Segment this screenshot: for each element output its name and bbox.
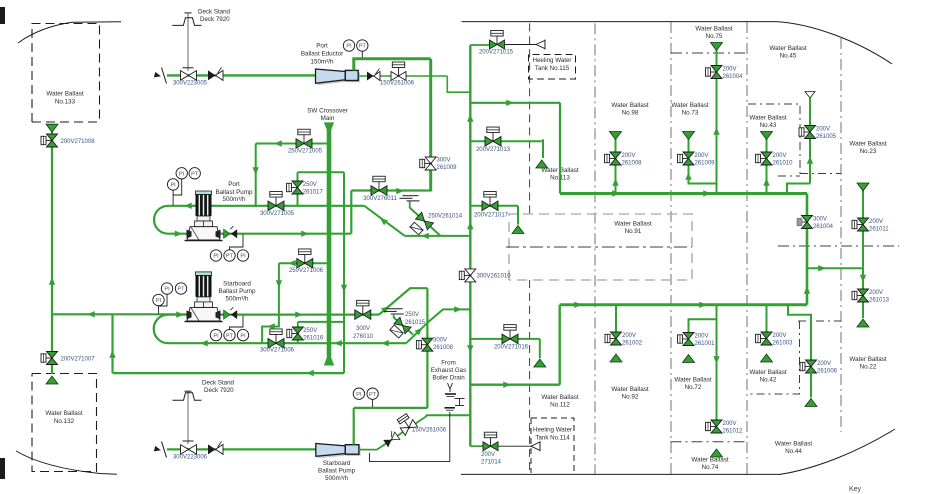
pump room boundary x529.5 [529, 23, 531, 216]
svg-text:200V: 200V [723, 67, 737, 73]
wire stbd eductor discharge [359, 449, 377, 451]
valve 250V271006 on SW main branch [279, 262, 331, 264]
boiler drain funnel symbol [448, 383, 453, 389]
tank 43 suction triangle [761, 132, 773, 140]
svg-text:Water Ballast: Water Ballast [614, 221, 651, 228]
wire crossover diagonal stbd discharge up [379, 288, 427, 314]
tank No.75 lower boundary [671, 52, 747, 54]
wire bypass jog to suction [262, 315, 279, 344]
svg-text:250V: 250V [405, 312, 419, 318]
wire overboard stub [409, 202, 411, 209]
wire 261016 header y321.9 [298, 321, 344, 323]
svg-text:Water Ballast: Water Ballast [671, 102, 708, 109]
valve 200V271014 [490, 438, 492, 447]
svg-text:261009: 261009 [437, 165, 458, 171]
valve 200V261001 [683, 338, 689, 340]
wire 250V261017 stub header y172.3 [298, 171, 345, 173]
svg-text:250V: 250V [303, 328, 317, 334]
tank Water Ballast No.133 box [32, 24, 100, 123]
tank 72 triangle [683, 355, 695, 363]
black check valve top line [208, 70, 216, 80]
svg-text:PI: PI [346, 44, 352, 50]
svg-text:Tank No.114: Tank No.114 [535, 435, 570, 442]
wire 300V276011 header y190.5 [351, 189, 430, 191]
black drain loop bracket [370, 412, 450, 462]
svg-text:PI: PI [156, 298, 162, 304]
svg-text:261010: 261010 [773, 161, 794, 167]
wire 200V271017 branch y205.8 [470, 205, 518, 207]
wire diagonal suction link to riser427 [407, 323, 428, 343]
black line to heeling 114 funnel [498, 445, 533, 447]
svg-text:200V271015: 200V271015 [479, 50, 514, 56]
funnel heeling 114 [531, 442, 540, 450]
tank 73 suction triangle [683, 132, 695, 140]
tank 72 jog y319.2 [689, 319, 717, 333]
valve 250V261015 diagonal [394, 317, 411, 334]
svg-text:200V: 200V [695, 153, 709, 159]
svg-text:Water Ballast: Water Ballast [541, 394, 578, 401]
svg-text:200V: 200V [622, 153, 636, 159]
valve 200V261003 [761, 338, 767, 340]
svg-text:No.72: No.72 [685, 384, 702, 391]
valve 300V261008 [421, 344, 427, 346]
wire main2 y304.8 [560, 303, 807, 306]
gauge stems port pump [173, 180, 182, 196]
svg-text:250V: 250V [303, 182, 317, 188]
svg-text:261006: 261006 [817, 369, 838, 375]
wire y183.5 link to main1 [787, 184, 810, 194]
wire elbow x539.8 tank112 [539, 339, 541, 358]
valve 200V271017 [489, 197, 491, 206]
svg-text:Ballast Pump: Ballast Pump [318, 468, 356, 475]
wire eductor overflow diagonal [377, 415, 426, 449]
wire stub 261016 [297, 322, 299, 343]
svg-text:261005: 261005 [816, 134, 837, 140]
wire drop x255.7 to port suction [255, 144, 257, 207]
gauge PT port eductor [357, 40, 368, 51]
svg-text:Ballast Pump: Ballast Pump [215, 189, 253, 196]
valve 200V271007 [46, 357, 52, 359]
wire link y268.3 [807, 267, 863, 269]
wire 200V271013 branch y141.3 [470, 140, 542, 142]
svg-text:PT: PT [226, 254, 234, 260]
wire diagonal port suction to y235.9 [364, 206, 405, 236]
valve 200V261011 [857, 224, 863, 226]
valve 300V271006 [275, 334, 277, 343]
tank 45 branch white triangle [805, 92, 815, 99]
black check valve after eductor [367, 72, 374, 81]
svg-text:Water Ballast: Water Ballast [695, 26, 732, 33]
tank Water Ballast No.132 box [32, 374, 97, 472]
sea suction slash top [162, 68, 167, 84]
gauge stem stbd eductor [372, 400, 374, 407]
valve 200V261005 [804, 131, 810, 133]
valve 150V261006 port [398, 68, 400, 77]
valve 150V261006 stbd diagonal [396, 413, 418, 436]
wire main riser x470.3 [469, 45, 471, 446]
svg-text:PI: PI [240, 254, 246, 260]
svg-text:No.91: No.91 [625, 228, 642, 235]
funnel heeling 115 [536, 40, 545, 48]
gauge PI2 port discharge [237, 250, 248, 261]
svg-text:Water Ballast: Water Ballast [769, 45, 806, 52]
wire 271014 elbow [470, 445, 483, 447]
tank No.43 box [748, 104, 800, 176]
svg-text:PT: PT [226, 333, 234, 339]
svg-text:300V: 300V [813, 217, 827, 223]
svg-text:200V271007: 200V271007 [61, 357, 96, 363]
svg-text:PT: PT [191, 172, 199, 178]
wire vertical x112.5 link [111, 314, 113, 373]
valve 250V261016 [292, 333, 298, 335]
gauge bracket stbd discharge [230, 316, 244, 330]
tank 42b/44 jog branch [788, 305, 811, 361]
centerline inside No.91 [506, 246, 692, 248]
check valve stbd discharge [224, 310, 230, 319]
hull top-left corner curve [18, 22, 121, 43]
gauge PI port eductor [343, 40, 354, 51]
svg-text:250V261014: 250V261014 [428, 214, 463, 220]
svg-text:261004: 261004 [723, 74, 744, 80]
tank 75 suction triangle [711, 43, 723, 51]
valve 200V261010 tank43 [761, 158, 767, 160]
svg-text:300V223005: 300V223005 [173, 81, 208, 87]
wire 300V276011 riser x351.3 [350, 191, 352, 234]
valve 200V261006 [805, 366, 811, 368]
wire stbd eductor suction riser [353, 408, 355, 445]
svg-text:261011: 261011 [869, 227, 889, 233]
svg-text:200V: 200V [869, 219, 883, 225]
svg-text:Water Ballast: Water Ballast [749, 369, 786, 376]
svg-text:Water Ballast: Water Ballast [674, 377, 711, 384]
svg-text:200V: 200V [816, 127, 830, 133]
svg-text:No.73: No.73 [682, 110, 699, 117]
valve 200V261013 [857, 295, 863, 297]
overboard symbol stbd [387, 308, 403, 310]
valve 200V271008 [46, 140, 52, 142]
svg-text:250V271005: 250V271005 [288, 149, 323, 155]
svg-text:Ballast Eductor: Ballast Eductor [301, 51, 343, 58]
tank 132 suction triangle [46, 376, 58, 384]
valve 300V261004 [802, 221, 807, 223]
tank No.42 box [798, 320, 841, 322]
wire diagonal 250V261015 [394, 318, 413, 335]
wire stbd suction header y314.3 [52, 313, 188, 315]
tank 23 triangle [857, 183, 869, 191]
gauge PT stbd discharge [224, 329, 235, 340]
wire 200V271016 branch y338.9 [470, 338, 540, 340]
svg-text:PI: PI [164, 287, 170, 293]
wire vertical x344 SW main to bottom header [343, 172, 345, 373]
svg-text:300V271006: 300V271006 [260, 348, 295, 354]
svg-text:No.42: No.42 [760, 377, 777, 384]
wire bottom header y373.1 [113, 372, 345, 374]
svg-text:300V261010: 300V261010 [477, 274, 512, 280]
svg-text:Water Ballast: Water Ballast [611, 386, 648, 393]
gauge PI2 stbd discharge [237, 329, 248, 340]
svg-text:261016: 261016 [303, 336, 324, 342]
wire main1 y193.5 [560, 192, 807, 195]
svg-text:250V271006: 250V271006 [289, 268, 324, 274]
wire stub x297.5 [297, 172, 299, 206]
svg-text:PI: PI [213, 254, 219, 260]
svg-text:150V261006: 150V261006 [380, 81, 415, 87]
valve 300V271005 port suction [275, 197, 277, 206]
orifice symbol 261015 [390, 325, 403, 338]
svg-text:500m³/h: 500m³/h [325, 475, 349, 482]
tank No.74 boundary [671, 441, 747, 443]
svg-text:PI: PI [356, 392, 362, 398]
svg-text:Tank No.115: Tank No.115 [535, 65, 570, 72]
svg-text:261003: 261003 [773, 341, 794, 347]
wire line A y102.8 [470, 102, 560, 104]
tank 75 branch [716, 50, 718, 194]
tank 112 suction triangle [534, 359, 546, 367]
svg-text:No.98: No.98 [622, 110, 639, 117]
black check valve bottom line [208, 444, 216, 454]
svg-text:150m³/h: 150m³/h [310, 59, 334, 66]
wire overboard stub stbd [393, 314, 395, 318]
svg-text:300V: 300V [433, 338, 447, 344]
wire main2 feed riser x559.7 [559, 305, 561, 385]
svg-text:200V271013: 200V271013 [476, 147, 511, 153]
svg-text:Water Ballast: Water Ballast [749, 115, 786, 122]
black check on overflow diagonal [382, 430, 400, 447]
fold mark top-left [0, 7, 5, 24]
svg-text:No.112: No.112 [550, 402, 570, 409]
valve 250V261014 diagonal [415, 212, 433, 230]
svg-text:Water Ballast: Water Ballast [775, 441, 812, 448]
tank Water Ballast No.91 box [509, 214, 692, 280]
svg-text:No.132: No.132 [54, 418, 75, 425]
black line to heeling 115 funnel [505, 44, 537, 46]
overboard symbol port [403, 195, 419, 197]
valve 250V271005 [303, 135, 305, 144]
tank 133 suction triangle [46, 124, 58, 132]
svg-text:300V223006: 300V223006 [173, 455, 208, 461]
svg-text:Boiler Drain: Boiler Drain [432, 375, 465, 382]
wire diagonal 250V261014 [410, 208, 441, 236]
tank 73 branch [689, 139, 717, 184]
svg-text:PT: PT [177, 287, 185, 293]
wire tank45 branch x810 [809, 98, 811, 184]
svg-text:PI: PI [240, 333, 246, 339]
wire line A drop x560 [559, 103, 561, 194]
svg-text:No.43: No.43 [760, 122, 777, 129]
starboard ballast pump P2 body [185, 272, 223, 322]
gauge PI stbd discharge [210, 329, 221, 340]
tank 98 suction triangle [610, 132, 622, 140]
wire header y407.9 [354, 407, 428, 409]
svg-text:261008: 261008 [433, 345, 454, 351]
tank 91 suction triangle [512, 226, 524, 234]
gauge PT stbd pump [175, 283, 186, 294]
svg-text:Exhaust Gas: Exhaust Gas [431, 367, 466, 374]
sea suction slash bottom [162, 442, 167, 458]
valve 200V261012 [711, 426, 717, 428]
valve 300V276010 [362, 306, 364, 315]
wire riser x807 [806, 194, 809, 305]
svg-text:150V261006: 150V261006 [412, 428, 447, 434]
svg-text:PT: PT [369, 392, 377, 398]
svg-text:Heeling Water: Heeling Water [533, 427, 572, 434]
svg-text:261017: 261017 [303, 190, 324, 196]
svg-text:No.74: No.74 [702, 464, 719, 471]
wire elbow x447.3 y92.2 [447, 76, 470, 92]
wire 250V271005 branch y143.5 [256, 143, 331, 145]
wire header y235.9 [405, 235, 471, 237]
svg-text:200V271016: 200V271016 [494, 345, 529, 351]
svg-text:Starboard: Starboard [323, 460, 351, 467]
starboard eductor body [318, 446, 348, 459]
wire riser x427.4 [426, 288, 428, 408]
tank 98 branch [615, 139, 617, 194]
wire riser x52 from tank133 to tank132 [51, 132, 53, 353]
valve 300V223005 [181, 71, 189, 81]
tank 44 triangle [805, 399, 817, 407]
svg-text:Water Ballast: Water Ballast [849, 141, 886, 148]
svg-text:261001: 261001 [695, 341, 716, 347]
svg-text:200V271017: 200V271017 [474, 213, 509, 219]
valve 250V261017 [292, 187, 298, 189]
port ballast eductor body [318, 71, 348, 85]
svg-text:Deck Stand: Deck Stand [202, 380, 235, 387]
tank boundary bulkhead x841 [840, 38, 842, 432]
check valve port discharge [224, 229, 230, 238]
port pump discharge y233.7 [218, 233, 351, 235]
gauge stems stbd pump [159, 295, 168, 307]
wire elbow x518 tank91 [517, 206, 519, 225]
gauge bracket port discharge [230, 235, 244, 250]
svg-text:300V: 300V [356, 326, 370, 332]
valve 200V261009 [683, 158, 689, 160]
valve 200V261008 [610, 158, 616, 160]
svg-text:Port: Port [316, 43, 328, 50]
hull bottom-left corner curve [16, 451, 117, 474]
boiler drain seal symbol [445, 393, 456, 395]
deck line bottom [461, 473, 781, 475]
svg-text:Starboard: Starboard [223, 281, 251, 288]
SW crossover main pipe [324, 122, 334, 129]
svg-text:Water Ballast: Water Ballast [611, 102, 648, 109]
wire overflow line y415.2 to riser470 [426, 414, 470, 416]
node arrow up riser52 [49, 277, 55, 285]
svg-text:Water Ballast: Water Ballast [849, 356, 886, 363]
tank boundary bulkhead x671 [670, 22, 672, 474]
svg-text:500m³/h: 500m³/h [225, 296, 249, 303]
svg-text:200V: 200V [695, 334, 709, 340]
valve 200V271013 [492, 133, 494, 142]
wire riser x430.7 [429, 59, 432, 192]
orifice symbol 261014 [409, 222, 423, 236]
valve 300V223006 [181, 445, 189, 455]
fold mark bottom-left [0, 458, 5, 479]
tank boundary bulkhead x595 [594, 23, 596, 474]
Heeling Water Tank No.115 box [529, 55, 576, 80]
svg-text:300V276011: 300V276011 [363, 196, 397, 202]
svg-text:261002: 261002 [622, 341, 643, 347]
valve 200V271015 [496, 36, 498, 45]
svg-text:200V: 200V [773, 333, 787, 339]
wire stbd suction bottom y343.2 [168, 342, 407, 344]
svg-text:No.75: No.75 [706, 33, 723, 40]
svg-text:No.22: No.22 [860, 364, 877, 371]
gauge PI low stbd pump [153, 294, 164, 305]
valve 200V261002 [610, 338, 616, 340]
wire main2 feed y384.7 [470, 384, 559, 386]
svg-text:200V: 200V [773, 153, 787, 159]
svg-text:No.44: No.44 [785, 448, 802, 455]
wire stbd U-loop and inlet y314.6 [154, 315, 188, 344]
svg-text:200V: 200V [817, 361, 831, 367]
svg-text:PI: PI [179, 172, 185, 178]
valve 300V261009 [425, 163, 431, 165]
valve 200V271016 [509, 330, 511, 339]
wire 200V271015 branch y45.2 [470, 44, 490, 46]
gauge stem port eductor [361, 52, 363, 58]
tank 92 triangle [610, 354, 622, 362]
valve 200V261004 [711, 71, 717, 73]
svg-text:261009: 261009 [695, 161, 716, 167]
svg-text:PT: PT [359, 44, 367, 50]
svg-text:200V271008: 200V271008 [61, 139, 96, 145]
hull top-right corner curve [462, 21, 776, 23]
gauge PT port pump [189, 168, 200, 179]
tank 22 triangle [857, 319, 869, 327]
svg-text:261012: 261012 [723, 429, 744, 435]
svg-text:Deck 7920: Deck 7920 [200, 16, 230, 23]
svg-text:500m³/h: 500m³/h [222, 196, 246, 203]
wire port eductor drive line y75.4 [167, 74, 316, 76]
gauge PT port discharge [224, 250, 235, 261]
wire drop x278.9 to stbd discharge [278, 263, 280, 314]
svg-text:Key: Key [849, 486, 862, 493]
svg-text:271014: 271014 [481, 460, 502, 466]
gauge PI stbd pump [161, 283, 172, 294]
gauge PT stbd eductor [367, 388, 378, 399]
svg-text:Heeling Water: Heeling Water [533, 57, 572, 64]
tank 113 suction triangle [536, 160, 548, 168]
svg-text:Port: Port [228, 181, 240, 188]
svg-text:200V: 200V [869, 290, 883, 296]
svg-text:Deck 7920: Deck 7920 [204, 387, 234, 394]
wire stbd link y309.4 [427, 309, 470, 322]
tank 42 branch x766.5 [766, 305, 768, 333]
wire tank23/22 line x863 [862, 191, 864, 319]
tank 42 triangle [761, 354, 773, 362]
wire below 261006 [810, 373, 812, 398]
wire eductor discharge riser thick [352, 59, 355, 71]
wire after eductor thin y76 [358, 75, 447, 77]
valve 300V261010 [464, 274, 470, 276]
deck stand bottom symbol [185, 390, 192, 392]
wire port suction top y205.8 with U-loop [154, 206, 364, 234]
svg-text:Ballast Pump: Ballast Pump [218, 288, 256, 295]
tank 74 triangle [711, 449, 723, 457]
gauge PI low port pump [167, 179, 178, 190]
Heeling Water Tank No.114 box [531, 418, 574, 473]
svg-text:200V: 200V [481, 452, 495, 458]
svg-text:SW Crossover: SW Crossover [307, 108, 348, 115]
svg-text:261013: 261013 [869, 298, 890, 304]
wire stbd discharge y314.6 [218, 314, 379, 316]
wire stbd eductor drive line y449.4 [167, 448, 316, 450]
svg-text:Water Ballast: Water Ballast [46, 91, 83, 98]
svg-text:Deck Stand: Deck Stand [198, 9, 231, 16]
gauge PI port discharge [210, 250, 221, 261]
deck stand top symbol [184, 12, 191, 14]
tank 72/74 branch x716.5 [716, 305, 718, 421]
